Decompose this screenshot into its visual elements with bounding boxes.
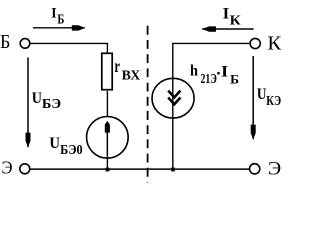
svg-text:21Э: 21Э xyxy=(201,72,217,87)
label I Б xyxy=(51,6,64,28)
label I К xyxy=(223,5,242,28)
svg-text:К: К xyxy=(230,13,242,28)
svg-text:I: I xyxy=(221,63,228,80)
voltage source internal arrow xyxy=(105,121,110,157)
terminal Э left circle xyxy=(20,164,30,174)
wire resistor to source UБЭ0 xyxy=(106,91,108,117)
label U БЭ0 xyxy=(49,135,82,158)
terminal Э right circle xyxy=(250,164,260,174)
resistor rВХ xyxy=(102,53,112,89)
svg-text:Э: Э xyxy=(2,158,13,178)
junction node right xyxy=(171,168,175,172)
svg-text:Э: Э xyxy=(268,158,281,179)
svg-text:К: К xyxy=(267,33,282,55)
svg-text:I: I xyxy=(51,6,56,22)
svg-text:I: I xyxy=(223,5,230,22)
voltage source UБЭ0 circle xyxy=(87,117,129,159)
junction node left xyxy=(106,168,110,172)
wire base top horizontal xyxy=(30,42,108,44)
current arrow IК xyxy=(202,26,254,31)
current source chevron 1 xyxy=(168,91,180,98)
label U КЭ xyxy=(257,86,281,109)
bottom rail wire xyxy=(30,168,250,170)
svg-text:Б: Б xyxy=(0,31,10,53)
svg-text:БЭ: БЭ xyxy=(42,97,61,112)
label h 21Э xyxy=(190,63,217,87)
wire collector top horizontal xyxy=(172,42,250,44)
voltage arrow UКЭ xyxy=(251,56,256,139)
svg-text:КЭ: КЭ xyxy=(266,94,281,109)
current source internal wire xyxy=(172,79,174,170)
voltage arrow UБЭ xyxy=(26,58,31,148)
current source chevron 2 xyxy=(168,98,180,105)
svg-text:ВХ: ВХ xyxy=(122,68,141,83)
svg-text:U: U xyxy=(49,135,60,152)
terminal Б circle xyxy=(20,39,30,49)
label I Б of h21Э·IБ xyxy=(221,63,239,86)
terminal К circle xyxy=(250,38,260,48)
label U БЭ xyxy=(32,90,61,112)
wire base vertical into resistor xyxy=(106,43,108,53)
label rВХ xyxy=(114,56,140,83)
svg-text:U: U xyxy=(32,90,43,107)
wire source to bottom rail xyxy=(106,157,108,169)
current arrow IБ xyxy=(33,25,85,30)
svg-text:Б: Б xyxy=(57,13,64,28)
multiplication dot xyxy=(217,72,220,75)
svg-text:h: h xyxy=(190,63,198,80)
wire collector vertical into source xyxy=(172,43,174,78)
svg-text:БЭ0: БЭ0 xyxy=(60,143,83,158)
svg-text:r: r xyxy=(114,56,120,76)
svg-text:Б: Б xyxy=(230,71,239,86)
boundary dashed line xyxy=(147,26,149,183)
current source h21Э·IБ circle xyxy=(152,78,194,118)
